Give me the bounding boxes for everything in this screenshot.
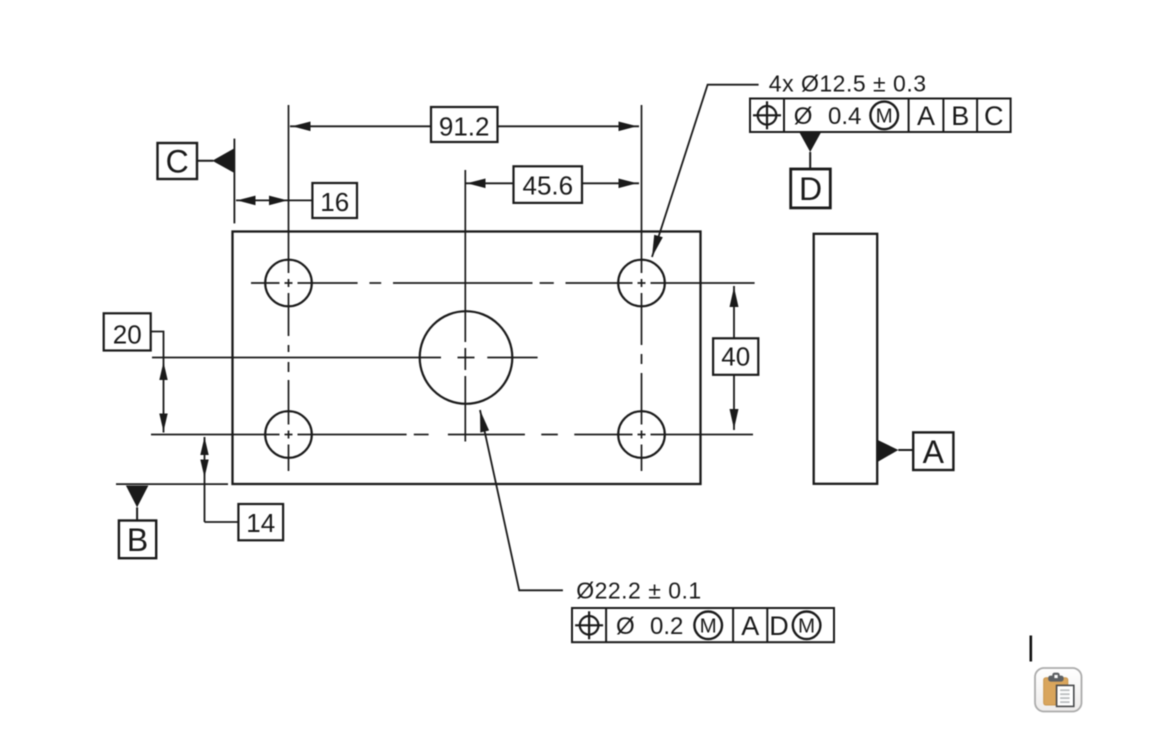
dimension 14	[200, 437, 283, 540]
centerline vertical right column	[641, 105, 643, 471]
svg-text:Ø22.2 ± 0.1: Ø22.2 ± 0.1	[576, 578, 702, 604]
svg-text:M: M	[876, 105, 893, 128]
svg-text:A: A	[741, 611, 759, 641]
dimension 91.2	[290, 107, 639, 142]
datum D box	[791, 169, 831, 208]
side view plate outline	[814, 234, 878, 484]
centerline vertical left column	[288, 105, 290, 471]
dimension 45.6	[466, 166, 639, 203]
datum A triangle	[877, 440, 898, 463]
datum C triangle	[212, 148, 234, 173]
datum B box	[119, 521, 156, 559]
leader center hole	[480, 410, 563, 590]
datum C leader	[197, 160, 213, 162]
svg-text:A: A	[923, 434, 945, 470]
front view plate outline	[233, 232, 701, 485]
datum B triangle	[126, 486, 148, 508]
svg-text:M: M	[798, 614, 815, 637]
datum A box	[913, 432, 953, 470]
extension line datum C / 16	[233, 139, 235, 224]
hole top-right	[618, 260, 665, 307]
M circle top	[870, 102, 898, 130]
svg-text:0.2: 0.2	[650, 613, 683, 640]
text cursor	[1030, 636, 1033, 662]
svg-text:16: 16	[320, 187, 349, 217]
svg-text:91.2: 91.2	[439, 111, 490, 141]
svg-text:B: B	[951, 101, 969, 131]
svg-text:4x Ø12.5 ± 0.3: 4x Ø12.5 ± 0.3	[769, 71, 927, 97]
dimension 20	[104, 313, 168, 432]
hole bottom-left	[265, 411, 312, 458]
svg-text:Ø: Ø	[616, 613, 635, 640]
hole bottom-right	[618, 411, 665, 458]
datum C box	[158, 143, 198, 179]
dimension 40	[713, 286, 758, 430]
feature control frame top	[750, 99, 1011, 133]
M circle bottom 2	[793, 612, 821, 640]
position symbol bottom	[580, 616, 599, 635]
hole center large	[420, 311, 513, 404]
svg-text:D: D	[769, 611, 789, 641]
paste icon page	[1057, 685, 1074, 706]
position symbol top	[758, 106, 777, 125]
paste icon clipboard body	[1044, 678, 1068, 705]
dimension 16	[236, 183, 357, 218]
datum D triangle	[799, 132, 822, 153]
leader 4x holes	[652, 85, 759, 257]
svg-text:0.4: 0.4	[828, 103, 861, 130]
feature control frame bottom	[572, 608, 834, 642]
svg-text:M: M	[700, 614, 717, 637]
hole top-left	[265, 260, 312, 307]
datum A leader	[898, 449, 913, 451]
svg-text:C: C	[984, 101, 1004, 131]
centerline horizontal middle	[152, 357, 538, 359]
svg-text:C: C	[166, 144, 189, 180]
svg-text:45.6: 45.6	[522, 170, 573, 200]
svg-text:D: D	[799, 171, 822, 207]
paste icon button	[1035, 668, 1082, 712]
centerline vertical center hole	[464, 170, 466, 442]
svg-text:B: B	[127, 522, 148, 558]
svg-text:14: 14	[246, 508, 275, 538]
svg-text:Ø: Ø	[794, 103, 813, 130]
svg-text:40: 40	[721, 342, 750, 372]
svg-text:A: A	[917, 101, 935, 131]
datum B extension line	[116, 483, 228, 485]
paste icon clip	[1052, 673, 1059, 679]
datum B stem	[136, 507, 138, 520]
datum D stem	[809, 152, 811, 169]
centerline horizontal bottom row	[151, 434, 753, 436]
M circle bottom 1	[694, 612, 722, 640]
centerline horizontal top row	[251, 282, 755, 284]
svg-text:20: 20	[113, 319, 142, 349]
